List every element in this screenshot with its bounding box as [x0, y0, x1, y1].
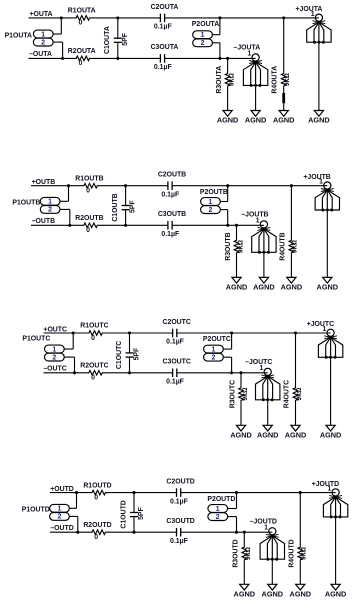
- svg-text:0.1µF: 0.1µF: [154, 24, 172, 31]
- svg-text:2: 2: [201, 40, 205, 47]
- svg-text:AGND: AGND: [245, 116, 267, 125]
- svg-text:5PF: 5PF: [134, 348, 141, 361]
- svg-text:P2OUTA: P2OUTA: [192, 21, 219, 28]
- svg-text:R1OUTA: R1OUTA: [68, 8, 96, 15]
- svg-text:–OUTA: –OUTA: [29, 51, 52, 58]
- svg-text:AGND: AGND: [290, 590, 312, 599]
- svg-text:P2OUTB: P2OUTB: [200, 189, 228, 196]
- svg-text:+OUTA: +OUTA: [29, 11, 52, 18]
- svg-text:AGND: AGND: [317, 283, 339, 292]
- svg-text:R4OUTC: R4OUTC: [284, 380, 291, 408]
- svg-text:9kΩ: 9kΩ: [292, 240, 299, 254]
- svg-text:R2OUTC: R2OUTC: [80, 363, 108, 370]
- svg-text:9kΩ: 9kΩ: [296, 387, 303, 401]
- svg-text:9kΩ: 9kΩ: [245, 546, 252, 560]
- svg-text:2: 2: [208, 207, 212, 214]
- svg-text:C2OUTB: C2OUTB: [158, 172, 186, 179]
- svg-text:+JOUTD: +JOUTD: [312, 481, 339, 488]
- svg-text:5PF: 5PF: [138, 507, 145, 520]
- svg-text:R4OUTD: R4OUTD: [288, 539, 295, 567]
- svg-text:C3OUTB: C3OUTB: [158, 211, 186, 218]
- svg-text:AGND: AGND: [234, 590, 256, 599]
- svg-text:0.1µF: 0.1µF: [166, 339, 184, 346]
- svg-text:1: 1: [311, 11, 315, 18]
- svg-text:1: 1: [247, 51, 251, 58]
- svg-text:+OUTD: +OUTD: [50, 486, 74, 493]
- svg-text:R2OUTD: R2OUTD: [83, 522, 111, 529]
- svg-text:C1OUTD: C1OUTD: [120, 500, 127, 528]
- svg-text:–OUTC: –OUTC: [43, 366, 66, 373]
- svg-text:1: 1: [201, 32, 205, 39]
- svg-text:2: 2: [48, 207, 52, 214]
- svg-text:P1OUTD: P1OUTD: [22, 506, 50, 513]
- svg-text:R3OUTA: R3OUTA: [216, 66, 223, 94]
- svg-text:1: 1: [319, 179, 323, 186]
- svg-text:R3OUTD: R3OUTD: [233, 539, 240, 567]
- svg-text:C1OUTC: C1OUTC: [116, 341, 123, 369]
- svg-text:AGND: AGND: [257, 431, 279, 440]
- svg-text:0: 0: [94, 534, 98, 541]
- svg-text:0: 0: [86, 227, 90, 234]
- svg-text:AGND: AGND: [281, 283, 303, 292]
- svg-text:R1OUTD: R1OUTD: [83, 482, 111, 489]
- svg-text:C3OUTD: C3OUTD: [166, 518, 194, 525]
- svg-text:AGND: AGND: [308, 116, 330, 125]
- svg-text:1: 1: [41, 31, 45, 38]
- svg-text:0.1µF: 0.1µF: [161, 191, 179, 198]
- svg-text:1: 1: [48, 199, 52, 206]
- svg-text:0: 0: [91, 335, 95, 342]
- svg-text:2: 2: [57, 514, 61, 521]
- svg-text:–OUTD: –OUTD: [50, 525, 73, 532]
- svg-text:R4OUTA: R4OUTA: [272, 66, 279, 94]
- svg-text:1: 1: [327, 486, 331, 493]
- svg-text:+JOUTB: +JOUTB: [303, 174, 330, 181]
- svg-text:P2OUTC: P2OUTC: [203, 336, 231, 343]
- svg-text:C1OUTA: C1OUTA: [104, 26, 111, 54]
- svg-text:–OUTB: –OUTB: [32, 218, 55, 225]
- svg-text:0: 0: [91, 375, 95, 382]
- svg-text:2: 2: [216, 514, 220, 521]
- svg-text:9kΩ: 9kΩ: [237, 240, 244, 254]
- svg-text:9kΩ: 9kΩ: [242, 387, 249, 401]
- svg-text:0: 0: [94, 494, 98, 501]
- svg-text:R2OUTA: R2OUTA: [68, 48, 96, 55]
- svg-text:0.1µF: 0.1µF: [154, 64, 172, 71]
- svg-text:9kΩ: 9kΩ: [301, 546, 308, 560]
- svg-text:+JOUTC: +JOUTC: [307, 321, 334, 328]
- svg-text:P1OUTC: P1OUTC: [22, 336, 50, 343]
- svg-text:1: 1: [260, 365, 264, 372]
- svg-text:9kΩ: 9kΩ: [228, 73, 235, 87]
- svg-text:P1OUTB: P1OUTB: [12, 199, 40, 206]
- svg-text:0.1µF: 0.1µF: [166, 379, 184, 386]
- svg-text:R2OUTB: R2OUTB: [75, 215, 103, 222]
- svg-text:0: 0: [78, 20, 82, 27]
- svg-text:1: 1: [208, 199, 212, 206]
- svg-text:C3OUTA: C3OUTA: [151, 44, 179, 51]
- svg-text:C2OUTD: C2OUTD: [166, 479, 194, 486]
- svg-text:P1OUTA: P1OUTA: [5, 33, 32, 40]
- svg-text:1: 1: [264, 524, 268, 531]
- svg-text:R1OUTC: R1OUTC: [80, 323, 108, 330]
- svg-text:9kΩ: 9kΩ: [284, 73, 291, 87]
- svg-text:AGND: AGND: [320, 431, 342, 440]
- svg-text:AGND: AGND: [262, 590, 284, 599]
- svg-text:5PF: 5PF: [122, 33, 129, 46]
- svg-text:R3OUTB: R3OUTB: [225, 232, 232, 260]
- svg-text:R4OUTB: R4OUTB: [279, 232, 286, 260]
- svg-text:AGND: AGND: [226, 283, 248, 292]
- svg-text:AGND: AGND: [253, 283, 275, 292]
- svg-text:+OUTC: +OUTC: [43, 326, 67, 333]
- svg-text:AGND: AGND: [217, 116, 239, 125]
- svg-text:2: 2: [52, 354, 56, 361]
- svg-text:1: 1: [57, 506, 61, 513]
- svg-text:R3OUTC: R3OUTC: [229, 380, 236, 408]
- svg-text:1: 1: [256, 217, 260, 224]
- svg-text:1: 1: [216, 506, 220, 513]
- svg-text:2: 2: [41, 39, 45, 46]
- svg-text:+OUTB: +OUTB: [32, 179, 56, 186]
- svg-text:C1OUTB: C1OUTB: [112, 193, 119, 221]
- svg-text:1: 1: [322, 326, 326, 333]
- svg-text:0.1µF: 0.1µF: [161, 231, 179, 238]
- svg-text:0.1µF: 0.1µF: [170, 538, 188, 545]
- svg-text:AGND: AGND: [325, 590, 347, 599]
- svg-text:AGND: AGND: [230, 431, 252, 440]
- svg-text:C3OUTC: C3OUTC: [163, 359, 191, 366]
- svg-text:0.1µF: 0.1µF: [170, 498, 188, 505]
- svg-text:0: 0: [78, 60, 82, 67]
- svg-text:C2OUTC: C2OUTC: [163, 319, 191, 326]
- svg-text:0: 0: [86, 188, 90, 195]
- svg-text:1: 1: [52, 346, 56, 353]
- svg-text:1: 1: [211, 346, 215, 353]
- svg-text:2: 2: [211, 355, 215, 362]
- svg-text:R1OUTB: R1OUTB: [75, 175, 103, 182]
- svg-text:AGND: AGND: [285, 431, 307, 440]
- svg-text:+JOUTA: +JOUTA: [296, 6, 323, 13]
- svg-text:P2OUTD: P2OUTD: [207, 496, 235, 503]
- svg-text:5PF: 5PF: [130, 200, 137, 213]
- svg-text:C2OUTA: C2OUTA: [151, 4, 179, 11]
- svg-text:AGND: AGND: [273, 116, 295, 125]
